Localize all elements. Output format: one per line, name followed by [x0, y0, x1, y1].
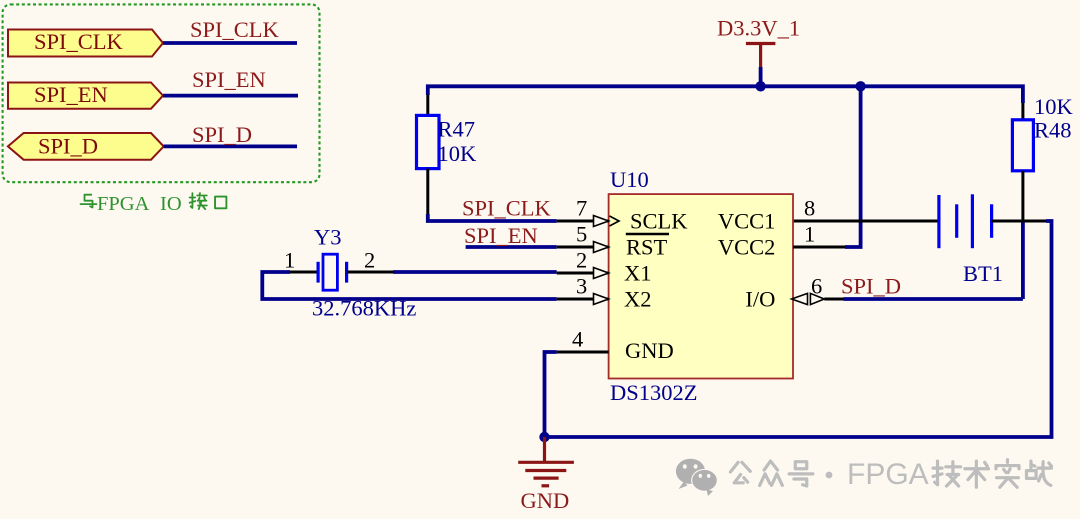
svg-text:SPI_EN: SPI_EN: [464, 223, 538, 248]
wire net SPI_D (port 3): [164, 144, 297, 148]
svg-text:X1: X1: [624, 261, 652, 286]
svg-text:2: 2: [576, 248, 587, 273]
junction at power drop: [755, 81, 765, 91]
svg-text:BT1: BT1: [963, 261, 1003, 286]
svg-text:SPI_D: SPI_D: [192, 122, 252, 147]
svg-text:IO: IO: [160, 193, 182, 215]
crystal Y3: [284, 225, 416, 321]
wire: R48 down to I/O net: [1021, 221, 1025, 299]
svg-text:10K: 10K: [1034, 94, 1074, 119]
ground symbol GND: [518, 437, 574, 513]
watermark wechat icon: [676, 459, 705, 489]
svg-text:SPI_CLK: SPI_CLK: [190, 17, 280, 42]
svg-text:1: 1: [804, 222, 815, 247]
svg-text:FPGA: FPGA: [847, 458, 929, 491]
pin 2 X1 lead: [557, 248, 652, 286]
port SPI_D (bidirectional): [8, 133, 164, 160]
wire net SPI_CLK (port 1): [163, 41, 297, 45]
wire: power drop to rail: [759, 67, 763, 86]
battery BT1: [793, 194, 1046, 285]
caption: yu FPGA IO jie kou (green): [81, 193, 227, 215]
svg-text:SPI_CLK: SPI_CLK: [462, 195, 552, 220]
svg-text:3: 3: [576, 274, 587, 299]
svg-text:X2: X2: [624, 287, 652, 312]
svg-text:SPI_EN: SPI_EN: [34, 82, 108, 107]
svg-text:2: 2: [364, 248, 375, 273]
resistor R48: [1012, 94, 1073, 221]
wire: crystal pin1 loop to X2: [262, 272, 556, 299]
svg-text:7: 7: [576, 196, 587, 221]
svg-text:1: 1: [284, 248, 295, 273]
svg-text:6: 6: [811, 274, 822, 299]
svg-text:VCC2: VCC2: [718, 235, 776, 260]
wire: SPI_EN to RST pin: [466, 245, 557, 249]
junction at GND node: [539, 432, 549, 442]
wire: top 3.3V rail horizontal: [428, 86, 1023, 103]
resistor R47: [417, 95, 478, 214]
pin 5 RST lead: [557, 222, 668, 260]
svg-text:R47: R47: [438, 117, 476, 142]
svg-text:5: 5: [576, 222, 587, 247]
svg-text:U10: U10: [610, 167, 649, 192]
watermark text: gong zhong hao . FPGA ji shu shi zhan: [730, 458, 1051, 491]
svg-text:10K: 10K: [438, 141, 478, 166]
wire net SPI_EN (port 2): [163, 94, 298, 98]
IC U10 DS1302Z body: [609, 194, 793, 378]
pin 4 GND lead: [557, 327, 674, 364]
pin 6 I/O bidirectional arrows: [745, 274, 824, 312]
pin 7 SCLK lead: [557, 196, 689, 235]
svg-text:SCLK: SCLK: [630, 209, 688, 234]
svg-text:VCC1: VCC1: [718, 209, 776, 234]
svg-text:RST: RST: [626, 235, 668, 260]
FPGA interface dotted group box: [3, 4, 320, 182]
port SPI_EN: [8, 82, 163, 109]
wire: GND pin down to GND node: [545, 352, 557, 437]
pin 1 VCC2 lead: [718, 222, 845, 260]
wire: VCC2 branch vertical: [845, 86, 861, 247]
wire: crystal pin2 to X1: [393, 270, 557, 274]
pin 3 X2 lead: [557, 274, 652, 312]
svg-text:R48: R48: [1034, 118, 1072, 143]
svg-text:SPI_CLK: SPI_CLK: [34, 29, 124, 54]
svg-text:SPI_D: SPI_D: [38, 134, 98, 159]
junction at VCC2 branch: [855, 81, 865, 91]
wire: battery to bottom return: [545, 221, 1052, 437]
port SPI_CLK: [8, 29, 163, 57]
svg-text:D3.3V_1: D3.3V_1: [717, 16, 800, 41]
svg-text:8: 8: [804, 196, 815, 221]
wire: SPI_D net horizontal: [844, 297, 1023, 301]
svg-text:DS1302Z: DS1302Z: [610, 380, 698, 405]
pin 6 lead (black): [824, 298, 843, 301]
svg-text:SPI_D: SPI_D: [841, 274, 901, 299]
wire: R47 to SCLK pin: [428, 214, 557, 221]
svg-text:FPGA: FPGA: [97, 193, 150, 215]
svg-text:4: 4: [572, 327, 583, 352]
svg-text:Y3: Y3: [314, 225, 342, 250]
pin 8 VCC1: [718, 196, 815, 234]
svg-text:SPI_EN: SPI_EN: [192, 67, 266, 92]
svg-text:GND: GND: [521, 488, 570, 513]
power symbol D3.3V_1: [717, 16, 800, 68]
svg-text:I/O: I/O: [745, 287, 775, 312]
svg-text:GND: GND: [625, 338, 674, 363]
